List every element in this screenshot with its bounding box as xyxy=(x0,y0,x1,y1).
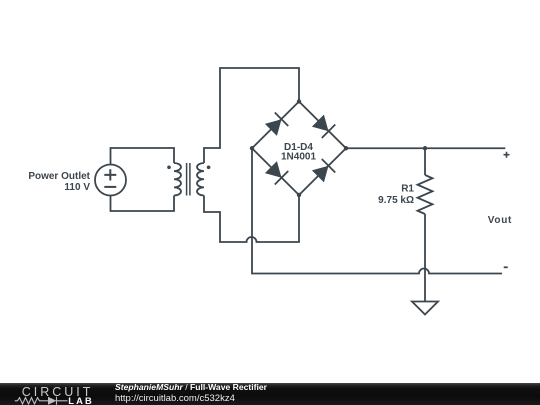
svg-text:9.75 kΩ: 9.75 kΩ xyxy=(378,195,414,206)
ground symbol xyxy=(412,302,438,315)
wire secondary top to bridge top xyxy=(204,68,299,163)
footer url line xyxy=(115,393,235,404)
label V1 value xyxy=(28,171,90,193)
wire secondary bottom to bridge bottom (hops over vertical wire) xyxy=(204,195,299,242)
node bottom junction dot xyxy=(297,193,301,197)
node right junction dot xyxy=(344,146,348,150)
CircuitLab logo zigzag + diode xyxy=(11,396,91,405)
diode D2 (upper-right) xyxy=(311,114,335,138)
transformer T1 secondary winding xyxy=(197,163,204,196)
CircuitLab logo text xyxy=(22,385,94,399)
primary phase dot xyxy=(167,166,171,170)
logo LAB text xyxy=(68,396,94,405)
bridge diamond edges xyxy=(252,102,346,196)
footer title line xyxy=(115,382,267,392)
transformer T1 primary winding xyxy=(174,163,181,196)
wire bridge right node to + terminal xyxy=(346,147,505,149)
node top junction dot xyxy=(297,99,301,103)
label R1 xyxy=(378,183,414,206)
svg-text:Power Outlet: Power Outlet xyxy=(28,171,90,182)
diode D3 (lower-left) xyxy=(264,160,288,184)
diode D1 (upper-left) xyxy=(264,113,288,137)
wire R1 bottom to ground xyxy=(424,214,426,302)
wire R1 top xyxy=(424,148,426,175)
- terminal label xyxy=(504,266,508,268)
transformer core xyxy=(187,163,190,196)
svg-text:110 V: 110 V xyxy=(64,182,90,193)
secondary phase dot xyxy=(207,166,211,170)
resistor R1 xyxy=(418,175,433,214)
node left junction dot xyxy=(250,146,254,150)
wire source top to transformer primary top xyxy=(111,148,175,165)
junction dot at R1 top xyxy=(423,146,427,150)
svg-text:1N4001: 1N4001 xyxy=(281,152,316,163)
footer bar xyxy=(0,383,540,405)
wire bridge left node down to bottom rail, rail hops over ground wire xyxy=(252,148,502,273)
bridge label xyxy=(281,142,316,163)
voltage source V1 (Power Outlet 110 V) xyxy=(95,165,126,196)
+ terminal label xyxy=(504,152,510,158)
wire source bottom to transformer primary bottom xyxy=(111,196,175,212)
svg-text:R1: R1 xyxy=(401,183,414,194)
svg-text:Vout: Vout xyxy=(488,215,512,226)
diode D4 (lower-right) xyxy=(311,159,335,183)
